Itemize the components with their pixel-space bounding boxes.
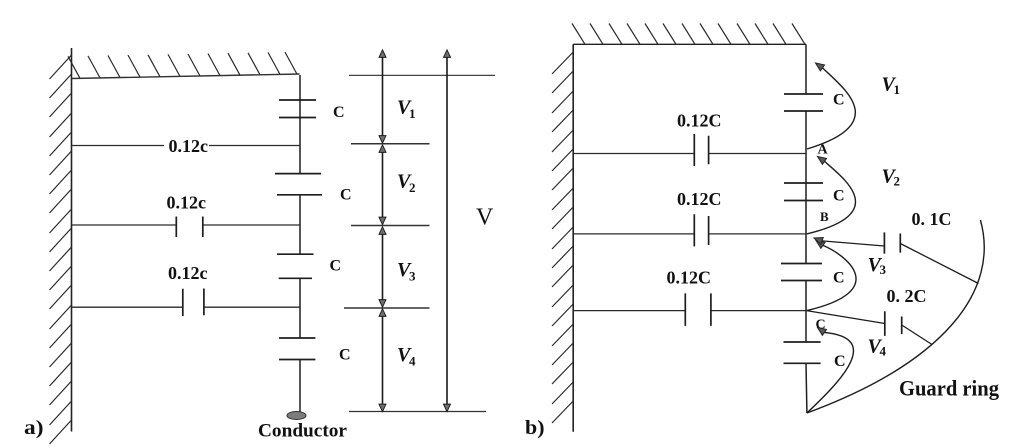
chain wire segment (fig a, cap3 bottom to cap4 top) [299, 278, 301, 338]
svg-text:3: 3 [880, 262, 887, 277]
capacitor 0.12c plates (branch 2, fig a) [176, 217, 203, 238]
wall hatching (fig a) [50, 55, 72, 444]
svg-text:b): b) [525, 417, 545, 439]
ceiling line (fig b) [573, 43, 806, 45]
capacitor C1 (fig a) plates [279, 100, 316, 118]
capacitor C4 (fig b) plates [784, 342, 821, 363]
svg-text:4: 4 [409, 354, 416, 369]
curved arrow V3 (node C to node B, fig b) [807, 245, 856, 310]
ceiling hatching (fig a) [68, 52, 297, 78]
svg-text:0. 2C: 0. 2C [887, 286, 927, 306]
chain wire segment (fig b, cap4 bottom to chain tip) [805, 363, 808, 413]
curved arrow V1 (node A to top, fig b) [807, 68, 855, 149]
arrow V1 span [382, 51, 384, 143]
arrow V4 span [382, 310, 384, 412]
wire 0.1C to guard ring [900, 244, 978, 284]
arrow V full span [446, 51, 448, 412]
svg-text:4: 4 [880, 344, 887, 359]
svg-text:0. 1C: 0. 1C [912, 209, 952, 229]
svg-text:0.12C: 0.12C [677, 189, 722, 209]
capacitor 0.12c plates (branch 3, fig a) [183, 289, 204, 317]
svg-text:C: C [340, 186, 352, 203]
branch wire 1 (fig a, wall to chain) [72, 145, 301, 147]
node line V3/V4 boundary [344, 307, 430, 309]
branch wire C (fig b, wall to node C) [573, 310, 806, 312]
svg-text:C: C [834, 353, 846, 370]
arrow V2 span [382, 146, 384, 225]
svg-text:Guard ring: Guard ring [899, 376, 999, 401]
node line top (voltage column) [349, 74, 495, 76]
svg-text:1: 1 [894, 82, 901, 97]
svg-text:C: C [833, 270, 845, 287]
svg-text:2: 2 [894, 174, 901, 189]
capacitor C1 (fig b) plates [784, 94, 823, 111]
svg-text:0.12C: 0.12C [677, 111, 722, 131]
svg-text:Conductor: Conductor [258, 421, 348, 442]
svg-text:C: C [339, 346, 351, 363]
node line V2/V3 boundary [351, 225, 430, 227]
wire 0.1C to node B with arrow [822, 241, 884, 246]
svg-text:3: 3 [409, 269, 416, 284]
wall (left, fig a) [71, 48, 73, 432]
conductor terminal (gray ellipse, fig a) [287, 412, 306, 420]
node line V1/V2 boundary [351, 143, 430, 145]
capacitor C3 (fig b) plates [781, 264, 822, 281]
ceiling line (fig a) [72, 74, 300, 79]
branch wire A (fig b, wall to node A) [573, 153, 806, 155]
svg-text:V: V [476, 205, 494, 231]
svg-text:C: C [833, 92, 845, 109]
ceiling hatching (fig b) [572, 24, 805, 45]
capacitor C4 (fig a) plates [279, 338, 315, 360]
capacitor 0.1C plates [884, 232, 900, 253]
chain wire segment (fig b, cap3 bottom through node C to cap4 top) [805, 281, 807, 343]
svg-text:0.12c: 0.12c [169, 136, 209, 156]
branch wire 3 (fig a) [72, 306, 301, 308]
curved arrow V2 (node B to node A, fig b) [807, 161, 856, 234]
capacitor 0.2C plates [885, 311, 902, 336]
svg-text:0.12C: 0.12C [667, 268, 712, 288]
capacitor 0.12C plates (branch C, fig b) [685, 293, 711, 326]
svg-text:a): a) [24, 417, 44, 439]
capacitor 0.12C plates (branch A, fig b) [694, 134, 708, 166]
wire 0.2C to guard ring [902, 325, 932, 345]
svg-text:1: 1 [409, 106, 416, 121]
arrow V3 span [382, 228, 384, 307]
node line bottom (voltage column) [349, 411, 486, 413]
capacitor C2 (fig a) plates [275, 174, 322, 195]
wire node C to 0.2C [807, 311, 885, 324]
chain wire segment (fig a, cap2 bottom to cap3 top) [299, 195, 301, 254]
curved arrow V4 (chain tip to node C, fig b) [807, 332, 854, 413]
branch wire 2 (fig a) [72, 224, 301, 226]
chain wire segment (fig b, ceiling to cap1 top) [805, 44, 807, 94]
svg-text:0.12c: 0.12c [168, 263, 208, 283]
capacitor 0.12C plates (branch B, fig b) [694, 214, 708, 246]
chain wire segment (fig b, cap1 bottom through nodes A,B to cap3 top) [805, 111, 807, 264]
svg-text:C: C [333, 104, 345, 121]
wall (left, fig b) [572, 44, 574, 432]
capacitor C2 (fig b) plates [784, 183, 823, 201]
svg-text:B: B [820, 209, 829, 224]
capacitor C3 (fig a) plates [277, 254, 314, 278]
chain wire segment (fig a, ceiling to cap2 top) [299, 75, 301, 174]
wall hatching (fig b) [552, 52, 573, 423]
svg-text:2: 2 [409, 180, 416, 195]
guard ring arc [807, 220, 984, 413]
svg-text:C: C [330, 258, 342, 275]
svg-text:0.12c: 0.12c [167, 193, 207, 213]
chain wire segment (fig a, cap4 bottom to conductor) [299, 360, 301, 413]
branch wire B (fig b, wall to node B) [573, 233, 806, 235]
svg-text:C: C [833, 188, 845, 205]
